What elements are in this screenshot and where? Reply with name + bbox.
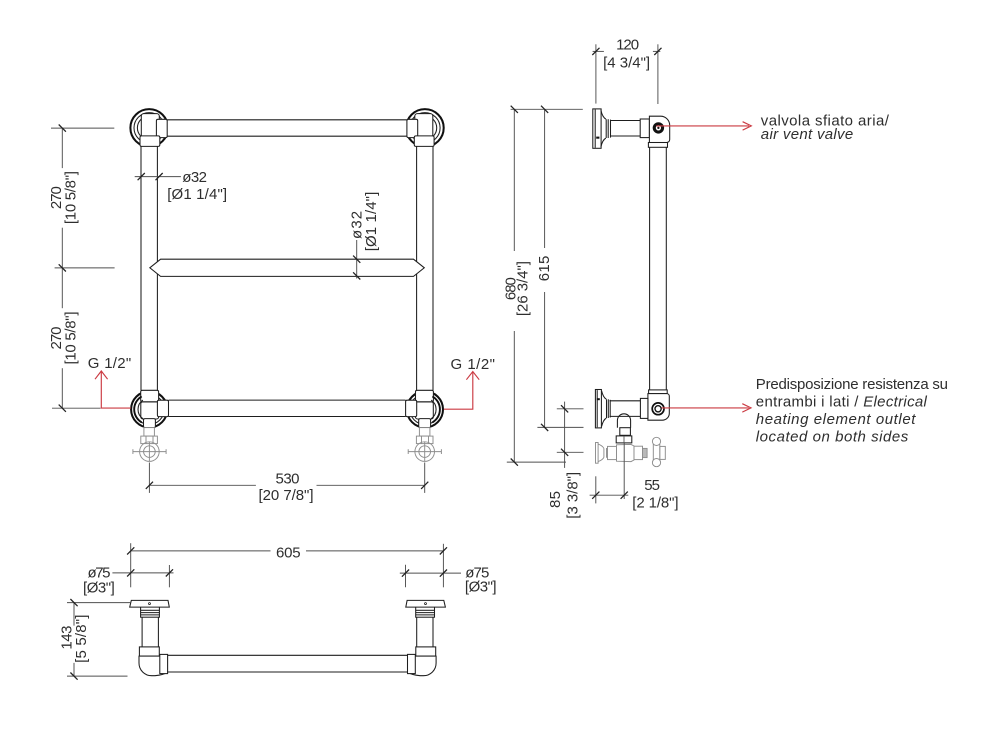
svg-text:[Ø1 1/4"]: [Ø1 1/4"] [363, 192, 380, 252]
middle rail [150, 259, 425, 276]
side bottom collar [640, 398, 648, 418]
left vertical tube [141, 146, 157, 390]
joint BR circle [407, 391, 443, 427]
elbow TR circle [406, 109, 444, 147]
svg-text:[3 3/8"]: [3 3/8"] [565, 472, 582, 519]
svg-text:605: 605 [276, 545, 301, 562]
svg-text:55: 55 [644, 477, 660, 494]
plan left flange [130, 600, 170, 607]
svg-text:ø32: ø32 [182, 169, 207, 186]
side bottom tee collar top [649, 390, 668, 394]
plan left neck and rings [141, 607, 160, 617]
dim o32 top-left [135, 169, 227, 203]
elbow TR body and collars [407, 114, 434, 147]
dim 143 [59, 599, 131, 680]
dim 530 bottom [146, 463, 429, 505]
svg-text:Predisposizione resistenza su: Predisposizione resistenza su [756, 376, 948, 393]
side bottom tube [610, 401, 641, 417]
svg-text:G 1/2": G 1/2" [88, 355, 131, 372]
dim o75 left [83, 565, 174, 597]
dim 605 [127, 543, 447, 587]
svg-text:[5 5/8"]: [5 5/8"] [73, 615, 90, 663]
svg-text:85: 85 [547, 491, 564, 508]
electrical outlet rings [652, 403, 664, 415]
red annotation: air vent valve [656, 112, 889, 142]
side top elbow body [649, 116, 669, 142]
svg-text:[20 7/8"]: [20 7/8"] [259, 487, 314, 504]
svg-text:[4 3/4"]: [4 3/4"] [603, 54, 650, 71]
dim o75 right [400, 565, 497, 596]
plan right flange [406, 600, 446, 607]
joint BR body and collars [406, 390, 440, 427]
svg-text:[Ø1 1/4"]: [Ø1 1/4"] [167, 186, 227, 203]
valve dome stub [617, 414, 630, 428]
svg-text:entrambi i lati / Electrical: entrambi i lati / Electrical [756, 394, 928, 411]
side bottom wall flange [595, 390, 601, 428]
plan right riser [417, 617, 433, 647]
dim 615 [536, 106, 583, 431]
dim 120 top [592, 36, 661, 104]
valve below BL joint [133, 428, 166, 462]
side bottom tee body [648, 394, 669, 421]
svg-text:[26 3/4"]: [26 3/4"] [514, 261, 531, 316]
side riser tube [650, 147, 667, 390]
plan left elbow collar [139, 647, 159, 656]
red annotation: electrical heating element [662, 376, 949, 445]
valve collar squares [616, 436, 632, 443]
svg-text:[10 5/8"]: [10 5/8"] [63, 312, 80, 365]
plan right elbow [408, 656, 437, 676]
svg-text:G 1/2": G 1/2" [451, 356, 496, 373]
svg-text:air vent valve: air vent valve [761, 126, 853, 143]
side top collar [640, 119, 649, 138]
svg-text:heating element outlet: heating element outlet [756, 411, 916, 428]
joint BL circle [131, 391, 167, 427]
svg-text:530: 530 [276, 470, 300, 487]
G 1/2 leader right [444, 356, 495, 409]
side top horizontal tube [611, 121, 641, 137]
G 1/2 leader left [88, 355, 131, 408]
bottom rail [169, 400, 406, 416]
plan left riser [142, 617, 158, 647]
right vertical tube [417, 146, 433, 390]
side top wall flange [593, 109, 601, 148]
dim 680 [503, 106, 583, 466]
valve below BR joint [408, 428, 441, 462]
plan right tube collar [408, 654, 416, 673]
side top cone [601, 110, 611, 147]
svg-text:615: 615 [536, 256, 553, 282]
svg-text:located on both sides: located on both sides [756, 428, 909, 445]
dim 55 [590, 444, 679, 512]
svg-text:[Ø3"]: [Ø3"] [83, 580, 115, 597]
side valve (gray) [596, 437, 666, 466]
dim 270 pair (left) [48, 125, 115, 412]
plan right elbow collar [416, 647, 436, 656]
dim 85 [547, 402, 583, 519]
svg-text:[2 1/8"]: [2 1/8"] [632, 495, 678, 512]
top rail [167, 120, 407, 136]
valve stem [620, 428, 631, 436]
svg-text:120: 120 [616, 36, 639, 53]
svg-text:[10 5/8"]: [10 5/8"] [63, 171, 80, 224]
elbow TL circle [130, 109, 168, 147]
elbow TL body and collars [140, 114, 167, 147]
svg-text:[Ø3"]: [Ø3"] [465, 579, 497, 596]
joint BL body and collars [134, 390, 168, 427]
side elbow lower collar [648, 143, 667, 148]
plan tube [168, 655, 408, 672]
side bottom cone [602, 391, 611, 427]
plan left tube collar [160, 654, 168, 673]
plan right neck and rings [416, 607, 435, 617]
plan left elbow [139, 656, 168, 676]
air vent valve [653, 122, 664, 133]
dim o32 rotated (middle rail) [348, 192, 380, 280]
